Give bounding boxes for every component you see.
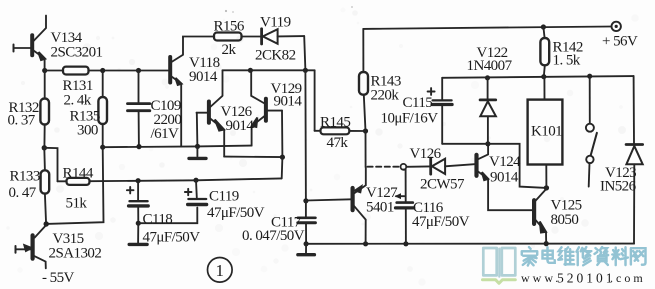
svg-text:2SA1302: 2SA1302 [49, 246, 102, 262]
wire: R145 branch down [314, 70, 316, 131]
junction dot: C109 top [136, 68, 141, 73]
watermark: chinese text 家电维修资料网 [522, 247, 646, 265]
wire: rail M (emitter rail) [103, 146, 252, 148]
svg-text:C115: C115 [403, 95, 433, 111]
resistor R131 [63, 67, 89, 75]
svg-text:47μF/50V: 47μF/50V [412, 214, 470, 230]
svg-text:9014: 9014 [490, 170, 519, 186]
junction dot: R135 top [100, 68, 105, 73]
svg-text:C119: C119 [209, 189, 239, 205]
svg-text:51k: 51k [66, 196, 88, 212]
svg-text:47μF/50V: 47μF/50V [207, 205, 265, 221]
svg-text:V126: V126 [410, 146, 442, 162]
junction dot: V122/V124 node [485, 141, 490, 146]
junction dot: V129 collector [248, 68, 253, 73]
char 网 [631, 248, 646, 265]
junction dot: V125 emitter on rail [544, 241, 549, 246]
svg-text:V119: V119 [260, 15, 291, 31]
junction dot: V127 emitter on bottom rail [363, 241, 368, 246]
resistor R142 [540, 27, 549, 77]
junction dot: C119 top [193, 178, 198, 183]
char 家 [522, 247, 537, 265]
junction dot: rail M ground tap [195, 144, 200, 149]
svg-text:47μF/50V: 47μF/50V [143, 230, 201, 246]
junction dot: C118 bottom [136, 221, 141, 226]
svg-text:R144: R144 [63, 166, 94, 182]
junction dot: V129 base node [280, 155, 285, 160]
svg-text:0. 047/50V: 0. 047/50V [242, 228, 305, 244]
diode V122 [480, 78, 496, 144]
svg-text:/61V: /61V [151, 126, 180, 142]
capacitor C119 [185, 180, 207, 204]
svg-text:R156: R156 [214, 19, 245, 35]
figure number circle 1 [208, 258, 233, 283]
wire: node to zener [406, 165, 430, 167]
wire: R132 junction stub to R144 [44, 148, 57, 182]
relay K101 [528, 77, 563, 188]
svg-text:C118: C118 [143, 212, 173, 228]
svg-text:1. 5k: 1. 5k [553, 53, 581, 69]
wire: V119 corner down [304, 36, 305, 70]
node: open circle C116 tap [401, 164, 407, 170]
resistor R133 [41, 148, 50, 224]
svg-text:10μF/16V: 10μF/16V [381, 111, 439, 127]
zener diode V126 2CW57 [431, 158, 475, 174]
svg-text:K101: K101 [531, 124, 562, 140]
ground: below rail M [189, 146, 206, 158]
junction dot: C117 / V127 base node [303, 198, 308, 203]
svg-text:V124: V124 [489, 154, 521, 170]
junction dot: V119 line on rail [303, 68, 308, 73]
svg-text:2. 4k: 2. 4k [64, 93, 92, 109]
switch contact [586, 76, 597, 186]
resistor R143 [359, 29, 368, 131]
svg-text:2CK82: 2CK82 [255, 48, 296, 64]
resistor R144 [58, 157, 283, 185]
ground: below C118 [129, 223, 147, 244]
svg-text:0. 37: 0. 37 [8, 113, 36, 129]
junction dot: R142 top [541, 24, 546, 29]
transistor V126 [197, 96, 225, 157]
wire: top rail to R156 [183, 36, 214, 39]
transistor V315 [16, 225, 47, 268]
char 电 [543, 247, 555, 263]
wire: V126/V129 emitter-base link rail [224, 156, 282, 159]
transistor V125 [534, 189, 546, 244]
svg-text:R133: R133 [10, 169, 40, 185]
junction dot: switch top [587, 74, 592, 79]
junction dot: R143/R145 node [363, 128, 368, 133]
wire: dashed link [368, 166, 399, 168]
capacitor C118 [127, 181, 148, 223]
junction dot: bottom rail left end [304, 241, 309, 246]
char 修 [577, 247, 592, 265]
svg-text:.com: .com [610, 271, 646, 285]
svg-text:2SC3201: 2SC3201 [51, 45, 103, 61]
svg-text:1N4007: 1N4007 [467, 58, 513, 74]
svg-text:2CW57: 2CW57 [420, 177, 465, 193]
char 资 [595, 247, 609, 265]
junction dot: relay coil bottom [544, 185, 549, 190]
junction dot: R142 bottom / relay top [541, 74, 546, 79]
svg-text:220k: 220k [371, 88, 400, 104]
node A: V134 emitter / R131 / R132 junction [42, 68, 47, 73]
resistor R145 [315, 127, 366, 134]
svg-text:9014: 9014 [274, 94, 303, 110]
svg-text:IN526: IN526 [600, 179, 637, 195]
resistor R156 [214, 33, 242, 41]
node: V315 base junction [44, 221, 49, 226]
svg-text:5401: 5401 [366, 200, 394, 216]
diode V123 [626, 76, 643, 244]
transistor V134 [14, 16, 47, 71]
svg-text:0. 47: 0. 47 [9, 185, 37, 201]
transistor V129 [251, 70, 282, 157]
char 料 [612, 247, 628, 265]
transistor V124 [477, 144, 533, 210]
svg-text:47k: 47k [327, 135, 349, 151]
svg-text:1: 1 [216, 261, 224, 280]
junction dot: rail M at R135 [100, 145, 105, 150]
capacitor C117 [298, 201, 316, 244]
wire: C118 bottom to C119 bottom [138, 208, 197, 224]
svg-text:9014: 9014 [226, 118, 255, 134]
svg-text:R145: R145 [320, 115, 350, 131]
wire: R143 node down to dashed node [365, 131, 367, 167]
watermark: url www.520101.com [521, 271, 646, 286]
junction dot: C118 top [136, 178, 141, 183]
junction dot: rail M at C109 [136, 144, 141, 149]
wire: V126 collector drop [222, 70, 224, 95]
capacitor C115 [428, 78, 453, 144]
resistor R132 [40, 71, 49, 148]
svg-text:www.: www. [521, 271, 561, 285]
svg-text:300: 300 [77, 123, 98, 139]
diode V119 [262, 29, 305, 44]
wire: R156 to V119 [242, 36, 261, 38]
watermark: book logo [483, 248, 516, 283]
node: R132/R133 junction [42, 145, 47, 150]
svg-text:8050: 8050 [551, 212, 579, 228]
terminal: +56V [612, 22, 621, 31]
wire: V119 node long vertical down [304, 70, 307, 201]
resistor R135 [98, 71, 107, 148]
capacitor C116 [396, 170, 414, 244]
svg-text:520101: 520101 [557, 271, 616, 286]
wire: bottom common rail [306, 243, 634, 245]
wire: top-right rail y27 [363, 27, 611, 29]
ground: below bottom rail [298, 244, 315, 255]
wire: C115 bottom rail [442, 144, 546, 188]
wire: mid rail y77 [442, 76, 633, 78]
wire: rail y70 left [45, 70, 168, 72]
wire: rail y70 right [223, 69, 315, 71]
char 维 [558, 247, 574, 265]
wire: R135 node down to V315 base [46, 147, 103, 224]
svg-text:- 55V: - 55V [42, 270, 75, 286]
transistor V127 [353, 167, 366, 244]
junction dot: C116 bottom on rail [403, 241, 408, 246]
wire: node to V127 base [306, 199, 351, 200]
svg-text:+ 56V: + 56V [602, 34, 638, 50]
svg-text:9014: 9014 [189, 69, 218, 85]
svg-text:2k: 2k [222, 42, 237, 58]
transistor V118 [170, 37, 183, 146]
capacitor C109 [128, 71, 150, 147]
junction dot: V122 top [485, 75, 490, 80]
